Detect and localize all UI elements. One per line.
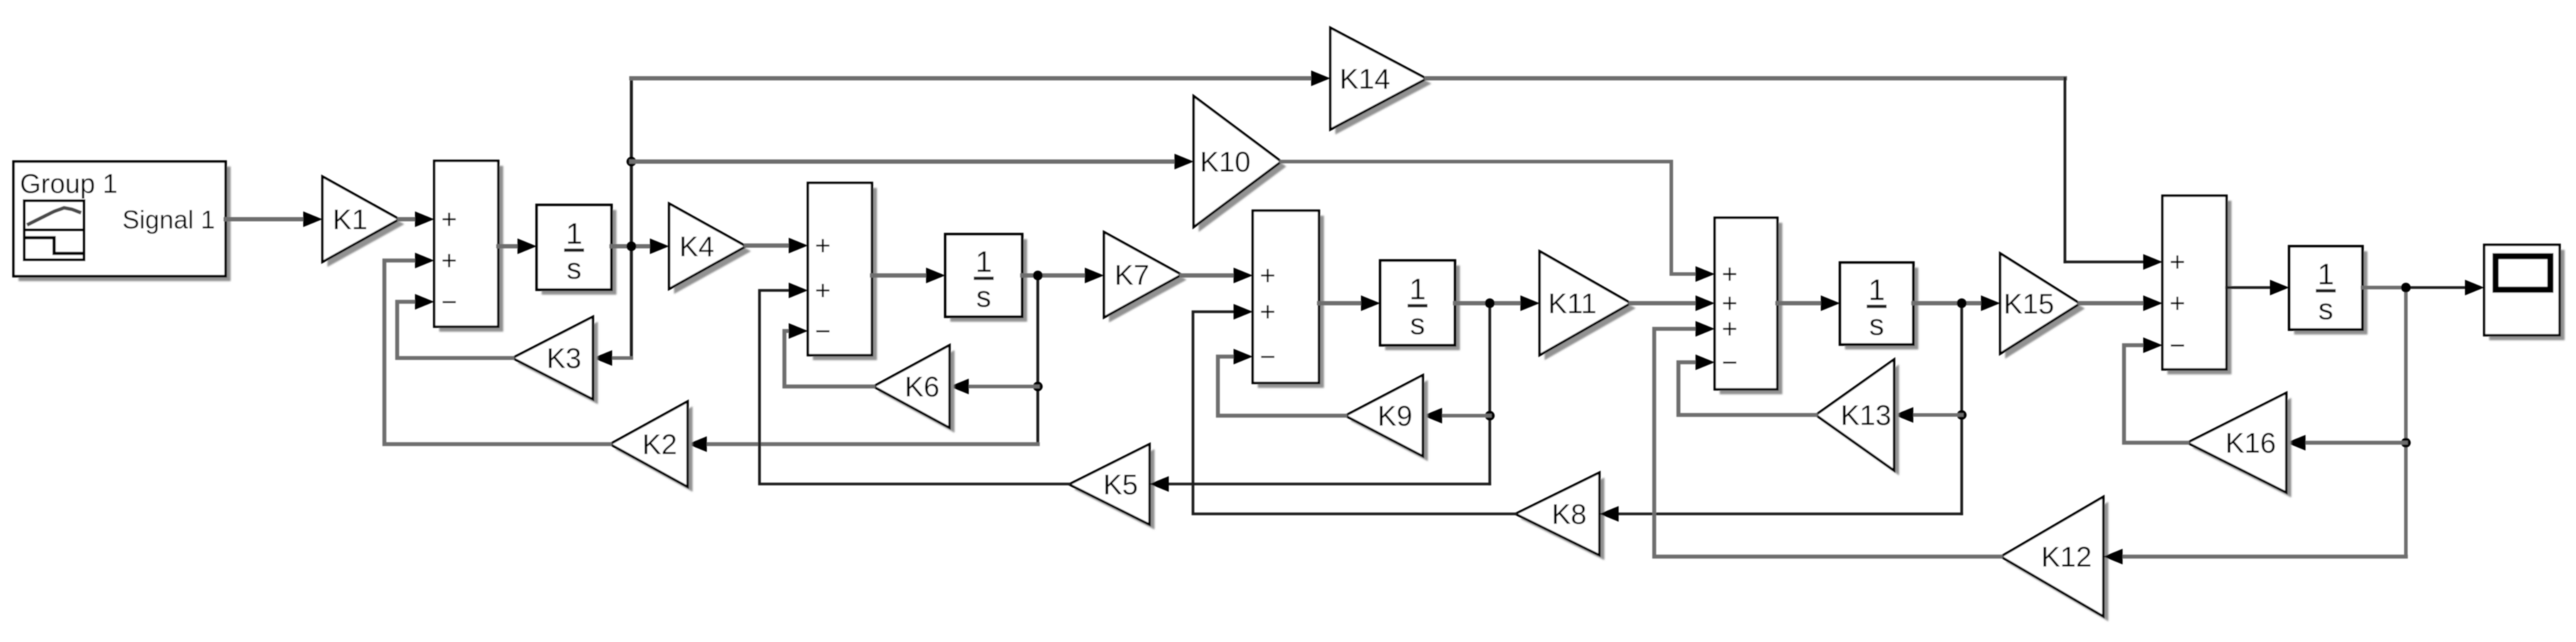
svg-text:K13: K13 (1841, 400, 1891, 431)
gain K13 (1821, 364, 1899, 475)
junction J2 vertical x=1458 (1036, 275, 1039, 444)
wire int4 to K15 with junction J4 (1913, 301, 1982, 305)
scope block (2489, 250, 2565, 340)
svg-text:K11: K11 (1548, 288, 1597, 320)
svg-text:−: − (1722, 348, 1738, 378)
gain K14 (1335, 33, 1431, 135)
wire K14 to sum5 +1 (1426, 76, 2065, 80)
wire K6 to sum2 minus (784, 331, 873, 386)
wire K2 to sum1 +2 (384, 261, 610, 444)
svg-text:K4: K4 (679, 231, 714, 263)
svg-text:s: s (1869, 308, 1884, 342)
svg-text:K6: K6 (905, 372, 940, 403)
integrator int4 (1/s) (1845, 268, 1918, 349)
wire K3 to sum1 minus (397, 302, 512, 358)
wire lineA to K14 (631, 76, 1313, 80)
integrator int2 (1/s) (950, 239, 1027, 322)
svg-text:K9: K9 (1377, 401, 1412, 432)
gain K3 (517, 322, 598, 404)
integrator int3 (1/s) (1385, 265, 1460, 350)
wire K5 to sum2 +2 (759, 290, 1069, 484)
gain K12 (2006, 502, 2108, 621)
svg-text:+: + (1722, 315, 1738, 344)
svg-text:1: 1 (1409, 273, 1426, 306)
svg-text:K16: K16 (2225, 428, 2276, 459)
svg-text:Signal 1: Signal 1 (122, 205, 215, 234)
wire int2 to K7 with junction J2 (1022, 273, 1086, 278)
svg-text:K7: K7 (1115, 260, 1150, 291)
sum block sum1 (439, 166, 503, 332)
wire K10 to sum4 +1 (1281, 162, 1697, 274)
wire K1 to sum1 +1 (399, 217, 417, 221)
sum block sum2 (813, 188, 877, 360)
sum block sum3 (1258, 216, 1324, 388)
svg-text:+: + (1260, 261, 1276, 291)
wire K7 to sum3 +1 (1182, 273, 1235, 278)
source block Group 1 (Signal Builder) (19, 167, 231, 281)
integrator int1 (1/s) (542, 210, 616, 295)
gain K2 (615, 406, 693, 492)
svg-text:+: + (2170, 248, 2185, 278)
wire sum1 to integrator1 (498, 244, 520, 248)
stub J2 to K6 input (968, 385, 1038, 389)
svg-text:+: + (441, 246, 457, 276)
wire sum3 to integrator3 (1319, 301, 1362, 305)
svg-text:−: − (2170, 331, 2185, 361)
sum block sum5 (2167, 201, 2231, 374)
gain K9 (1350, 380, 1428, 461)
gain K15 (2005, 258, 2085, 359)
stub J5 to K16 input (2305, 441, 2406, 445)
wire J3 down to K5 input (1168, 483, 1490, 485)
signal builder icon (24, 201, 84, 260)
wire J5 down to K12 input (2122, 554, 2406, 559)
svg-text:1: 1 (566, 217, 582, 251)
svg-text:−: − (815, 317, 831, 347)
svg-text:K10: K10 (1200, 147, 1251, 178)
wire int5 to scope with junction J5 (2362, 286, 2406, 290)
wire J2 down to K2 input (706, 442, 1038, 446)
svg-text:K8: K8 (1552, 499, 1587, 530)
svg-text:s: s (977, 280, 992, 313)
wire sum4 to integrator4 (1777, 301, 1822, 305)
wire int3 to K11 with junction J3 (1455, 301, 1522, 305)
wire J4 down to K8 input (1618, 512, 1962, 515)
gain K7 (1109, 237, 1187, 322)
svg-text:K14: K14 (1340, 64, 1390, 95)
svg-text:1: 1 (975, 245, 992, 278)
svg-text:K15: K15 (2004, 289, 2054, 320)
svg-text:K5: K5 (1103, 470, 1138, 501)
svg-text:1: 1 (1868, 273, 1885, 307)
wire sum2 to integrator2 (872, 273, 927, 278)
svg-text:K2: K2 (642, 429, 677, 461)
wire K11 to sum4 +2 (1631, 301, 1697, 305)
stub J1 to K3 input (612, 357, 631, 360)
svg-text:K1: K1 (332, 204, 367, 236)
junction J5 vertical x=3380 (2404, 288, 2408, 557)
svg-text:+: + (815, 231, 831, 261)
svg-text:s: s (1410, 307, 1425, 341)
junction J1 vertical x=887 (630, 78, 633, 358)
stub J4 to K13 input (1913, 414, 1962, 417)
svg-text:+: + (2170, 289, 2185, 319)
wire K4 to sum2 +1 (746, 243, 790, 248)
stub J3 to K9 input (1441, 414, 1490, 418)
svg-text:K3: K3 (547, 343, 582, 374)
gain K16 (2192, 398, 2291, 498)
gain K1 (327, 181, 404, 267)
svg-text:+: + (1722, 260, 1738, 290)
junction J3 vertical x=2093 (1488, 303, 1491, 484)
wire lineB to K10 (631, 159, 1176, 164)
integrator int5 (1/s) (2294, 251, 2367, 335)
wire K13 to sum4 minus (1678, 362, 1816, 415)
svg-text:s: s (2318, 293, 2333, 326)
gain K11 (1545, 256, 1636, 360)
gain K8 (1520, 478, 1604, 560)
wire K12 to sum4 +3 (1654, 329, 2001, 557)
wire K9 to sum3 minus (1218, 357, 1345, 416)
gain K4 (674, 209, 751, 294)
wire K16 to sum5 minus (2124, 345, 2187, 443)
svg-text:−: − (441, 288, 457, 317)
wire Signal1 to K1 (226, 217, 305, 221)
svg-text:Group 1: Group 1 (20, 169, 117, 199)
gain K10 (1199, 101, 1286, 232)
svg-text:+: + (441, 205, 457, 235)
wire int1 to K4 with junction J1 (611, 244, 652, 248)
junction J4 vertical x=2756 (1960, 303, 1963, 514)
gain K6 (878, 350, 955, 433)
wire K15 to sum5 +2 (2080, 301, 2144, 305)
gain K5 (1074, 449, 1155, 530)
svg-text:s: s (567, 252, 582, 285)
svg-text:+: + (815, 276, 831, 306)
svg-text:K12: K12 (2041, 542, 2092, 573)
wire K8 to sum3 +2 (1193, 312, 1515, 514)
svg-text:1: 1 (2318, 258, 2334, 291)
wire sum5 to integrator5 (2227, 286, 2271, 289)
svg-text:+: + (1260, 298, 1276, 327)
svg-text:−: − (1260, 342, 1276, 372)
sum block sum4 (1720, 223, 1782, 394)
